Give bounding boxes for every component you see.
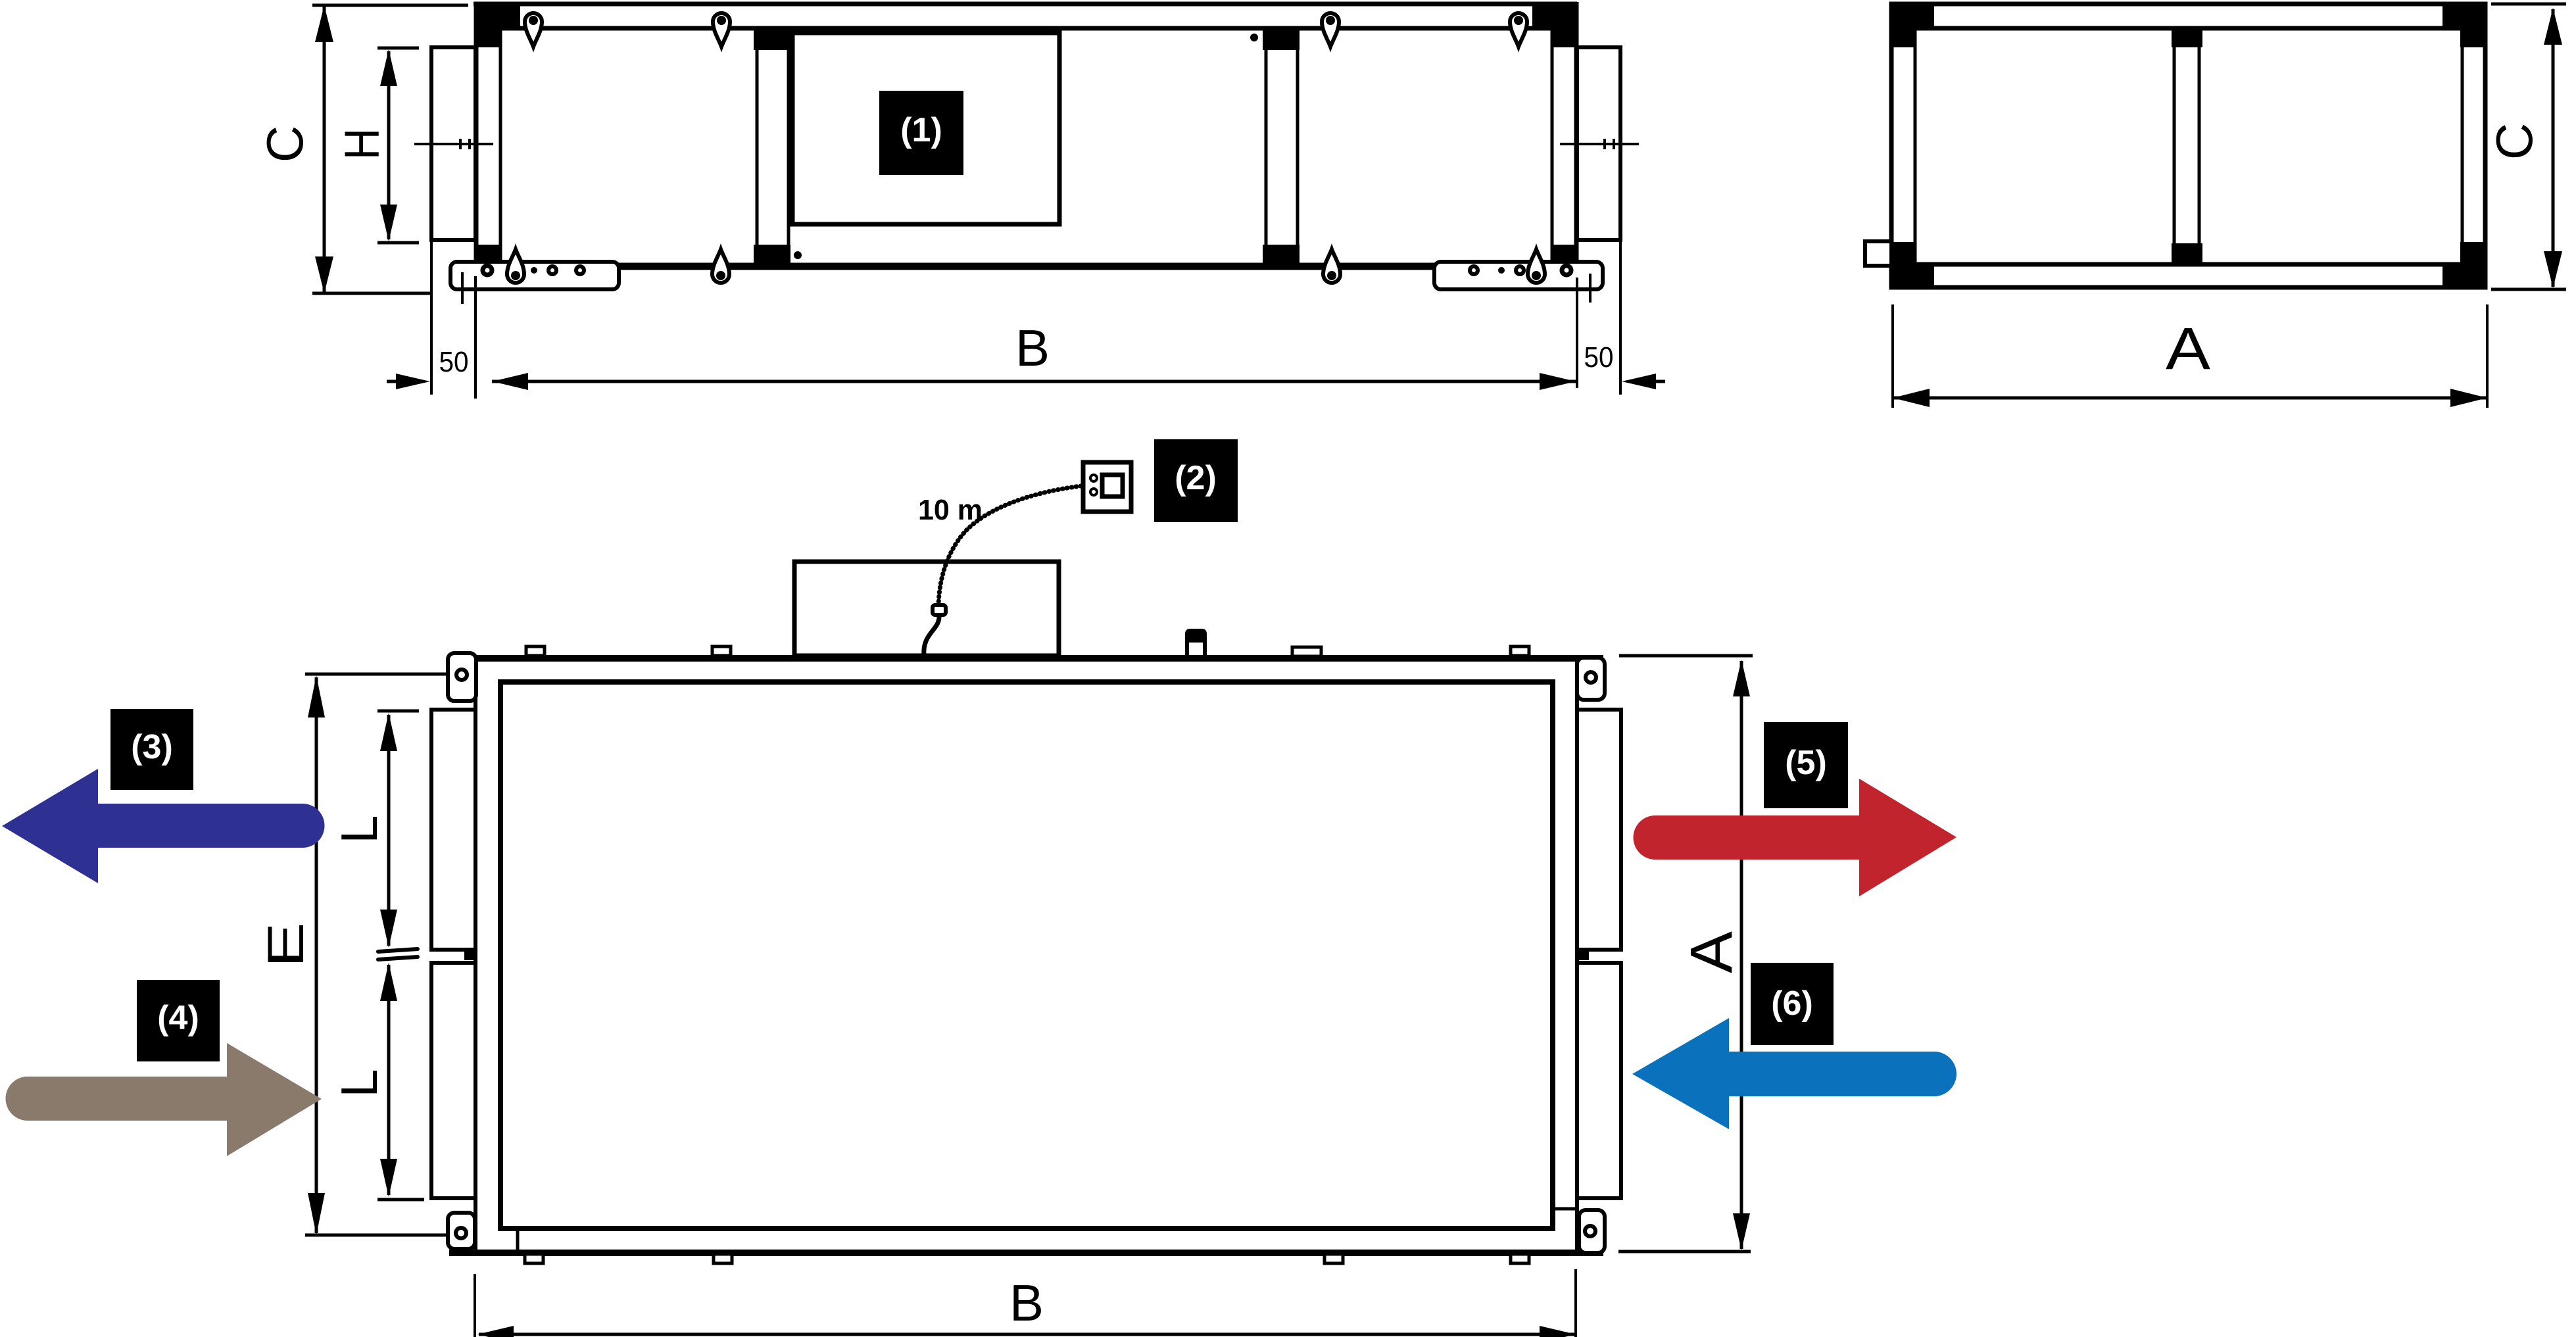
keyhole screw top 2 [713, 13, 730, 47]
keyhole screw bottom 3 [1323, 249, 1340, 283]
corner bracket bottom-right [1551, 245, 1577, 267]
label E [256, 923, 314, 968]
dimension B plan extension left [474, 1274, 476, 1337]
left foot holes [483, 266, 492, 275]
dimension E top extension [305, 673, 448, 676]
dimension C line [323, 7, 326, 292]
left duct flange [431, 47, 475, 240]
side view: left inner vertical [1914, 30, 1917, 263]
plan view: main cover panel [500, 682, 1553, 1228]
divider 1 bottom block [754, 245, 790, 268]
side corner bracket top-left [1889, 2, 1934, 47]
front view: unit top outer line [474, 2, 1577, 7]
label box (3) [110, 709, 193, 790]
side view: bottom inner line [1894, 262, 2485, 267]
dimension B front line [492, 380, 1576, 383]
front view: top inner rail line [476, 26, 1576, 31]
side view: outer frame [1891, 4, 2485, 287]
dimension H bottom extension [377, 241, 419, 245]
side corner bracket bottom-right [2442, 242, 2487, 289]
plan view: top outer line [449, 655, 1603, 662]
dimension L lower line [387, 965, 391, 1195]
front view: unit right inner edge [1551, 30, 1554, 263]
extension stub left 50 [461, 272, 464, 304]
svg-text:L: L [330, 1069, 388, 1097]
outdoor air arrow (4) taupe [6, 1043, 322, 1156]
keyhole screw top 1 [525, 13, 542, 47]
corner plate top-left [448, 653, 476, 701]
electrical connection box on top [794, 562, 1059, 656]
side corner bracket bottom-left [1889, 242, 1934, 289]
divider 1 right line [787, 30, 790, 263]
keyhole screw bottom 1 [507, 249, 524, 283]
top clip 2 [712, 646, 731, 656]
svg-text:50: 50 [439, 346, 469, 378]
side divider bottom block [2172, 243, 2202, 266]
extension line left unit edge [474, 276, 477, 399]
dimension A side right extension [2486, 304, 2489, 408]
plan lower right flange [1577, 963, 1621, 1198]
corner plate top-right [1577, 658, 1605, 700]
keyhole screw bottom 2 [712, 249, 729, 283]
svg-text:(4): (4) [157, 999, 199, 1037]
divider 2 bottom block [1263, 245, 1300, 268]
dimension A side line [1894, 397, 2486, 400]
label H front [335, 128, 389, 160]
side view: top inner line [1894, 26, 2485, 31]
label L upper [330, 815, 388, 843]
control box (1) outline [792, 33, 1059, 224]
corner plate bottom-left [448, 1213, 475, 1249]
bottom clip 2 [714, 1254, 732, 1263]
dimension H line [387, 51, 391, 239]
divider 2 right line [1296, 30, 1300, 263]
svg-text:(1): (1) [900, 111, 942, 149]
label box (4) [137, 980, 220, 1061]
dimension A side left extension [1891, 304, 1894, 408]
dimension B plan line [479, 1333, 1574, 1336]
wall step line bottom-right [1552, 1207, 1577, 1211]
bottom clip 1 [525, 1254, 543, 1263]
dimension E bottom extension [305, 1234, 448, 1237]
dimension A plan line [1740, 661, 1743, 1249]
rivet dot near divider 2 top [1250, 34, 1258, 41]
return air arrow (6) blue [1632, 1018, 1956, 1129]
dimension C side bottom extension [2491, 288, 2566, 291]
right duct flange [1577, 47, 1620, 240]
divider 2 left line [1265, 30, 1268, 263]
right foot holes [1470, 266, 1478, 274]
plan lower left flange [431, 963, 475, 1198]
side view hinge tab bottom-left [1865, 241, 1891, 266]
remote control unit (2) [1083, 462, 1131, 512]
top clip 4 [1511, 646, 1529, 656]
keyhole screw top 4 [1510, 13, 1527, 47]
label C front [256, 126, 314, 162]
dimension C top extension [312, 4, 468, 7]
svg-text:(3): (3) [131, 728, 173, 766]
extension line left flange edge [430, 242, 433, 395]
flange gap notch right [1576, 950, 1589, 960]
right flange centerline [1560, 143, 1639, 145]
plan view: bottom outer line [449, 1250, 1603, 1256]
bottom clip 3 [1324, 1254, 1343, 1263]
svg-text:A: A [1679, 931, 1745, 973]
top clip 1 [526, 646, 545, 656]
dimension C side top extension [2491, 3, 2566, 6]
right mounting foot [1434, 262, 1603, 289]
side divider left line [2173, 30, 2176, 263]
front view: unit bottom outer line [474, 263, 1577, 270]
left flange centerline [414, 143, 493, 145]
corner bracket top-left [475, 2, 520, 47]
label A plan [1679, 931, 1745, 973]
svg-text:C: C [2485, 123, 2543, 160]
label C side [2485, 123, 2543, 160]
extension stub right 50 [1589, 274, 1592, 303]
divider 1 left line [756, 30, 759, 263]
break marks between L dims [378, 949, 418, 952]
remote control cable [938, 486, 1081, 606]
label box (2) [1154, 439, 1238, 522]
bottom clip 4 [1511, 1254, 1529, 1263]
dimension A plan top extension [1619, 654, 1753, 658]
rivet dot near control box bottom [794, 251, 802, 259]
side corner bracket top-right [2442, 2, 2487, 47]
plan view: right wall outer line [1575, 662, 1579, 1250]
side divider right line [2198, 30, 2201, 263]
front view: unit right outer edge [1574, 2, 1579, 269]
corner bracket bottom-left [475, 245, 502, 267]
50 outside arrow right [1622, 374, 1656, 389]
svg-text:10 m: 10 m [918, 494, 983, 526]
keyhole screw top 3 [1322, 13, 1339, 47]
front view: unit left inner edge [499, 30, 502, 263]
inner-to-outer connector line bottom-left [516, 1226, 520, 1252]
top clip 3 [1292, 647, 1321, 656]
svg-text:H: H [335, 128, 389, 160]
svg-text:E: E [256, 923, 314, 968]
left mounting foot [450, 262, 619, 289]
plan upper right flange [1577, 710, 1621, 950]
dimension L upper line [387, 715, 391, 946]
dimension L upper top extension [377, 710, 419, 713]
dimension C side line [2552, 9, 2555, 287]
flange gap notch left [464, 950, 477, 960]
label box (6) [1751, 963, 1834, 1045]
svg-text:L: L [330, 815, 388, 843]
dimension C bottom extension [312, 292, 433, 295]
exhaust air arrow (3) navy [2, 769, 325, 883]
cable tail squiggle [924, 615, 939, 656]
plan view: left wall outer line [474, 662, 477, 1250]
corner bracket top-right [1532, 2, 1577, 47]
divider 1 top block [754, 28, 790, 50]
front view: unit left outer edge [474, 2, 479, 269]
divider 2 top block [1263, 28, 1300, 50]
label box (5) [1764, 722, 1848, 808]
cable gland terminal on top edge [1185, 629, 1207, 659]
label L lower [330, 1069, 388, 1097]
svg-text:A: A [2166, 316, 2210, 382]
keyhole screw bottom 4 [1528, 249, 1545, 283]
svg-text:(5): (5) [1785, 744, 1827, 782]
svg-text:(6): (6) [1771, 985, 1813, 1023]
cable connector [933, 605, 946, 615]
svg-text:(2): (2) [1175, 459, 1217, 497]
supply air arrow (5) red [1633, 779, 1956, 896]
svg-text:C: C [256, 126, 314, 162]
label box (1) [879, 91, 963, 175]
dimension H top extension [377, 47, 419, 50]
svg-text:50: 50 [1584, 341, 1614, 374]
svg-text:B: B [1015, 319, 1050, 377]
extension line right flange edge [1619, 242, 1622, 395]
corner plate bottom-right [1579, 1210, 1605, 1253]
svg-text:B: B [1009, 1274, 1044, 1332]
dimension E line [315, 677, 318, 1233]
extension line right unit edge [1576, 278, 1578, 388]
dimension L lower bottom extension [377, 1198, 424, 1202]
dimension A plan bottom extension [1618, 1250, 1751, 1253]
side divider top block [2172, 28, 2202, 47]
plan upper left flange [431, 710, 475, 950]
dimension B plan extension right [1574, 1269, 1577, 1337]
50 outside arrow left [396, 374, 430, 389]
side view: right inner vertical [2461, 30, 2464, 263]
